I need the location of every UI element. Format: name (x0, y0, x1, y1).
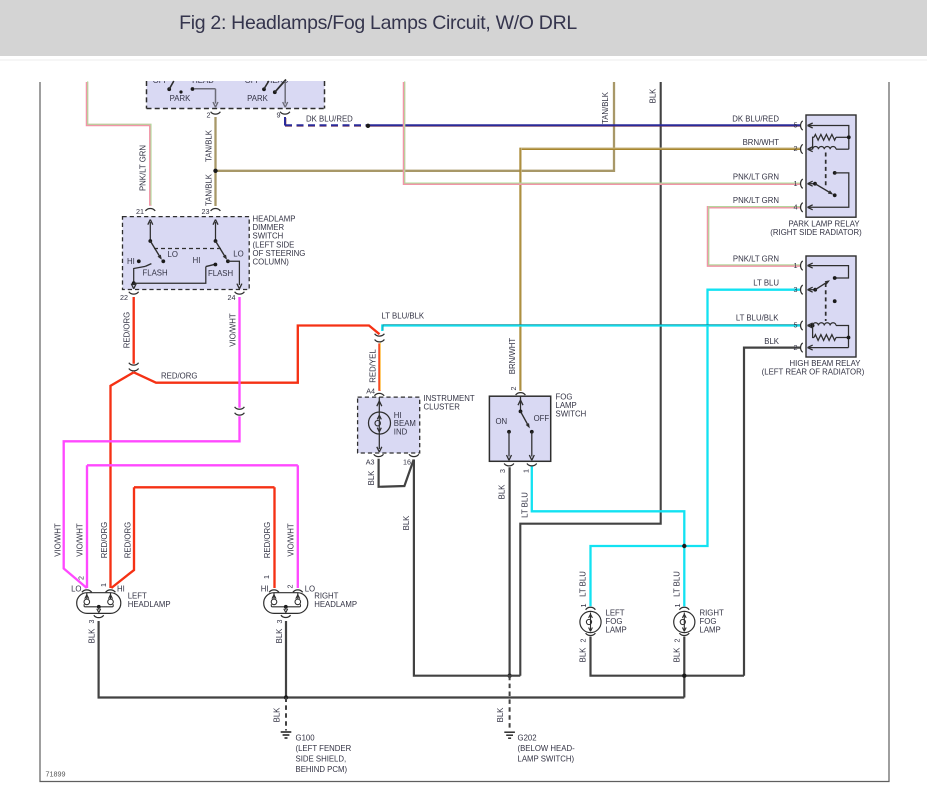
svg-text:PNK/LT GRN: PNK/LT GRN (733, 173, 779, 182)
svg-text:21: 21 (136, 207, 144, 216)
svg-text:LO: LO (233, 249, 243, 258)
svg-text:HI: HI (117, 584, 125, 593)
svg-text:RED/ORG: RED/ORG (123, 522, 132, 558)
svg-text:G100: G100 (296, 734, 316, 743)
svg-text:4: 4 (794, 203, 798, 212)
svg-text:LT BLU/BLK: LT BLU/BLK (382, 311, 425, 320)
svg-text:Fig 2: Headlamps/Fog Lamps Cir: Fig 2: Headlamps/Fog Lamps Circuit, W/O … (179, 12, 577, 34)
svg-text:(BELOW HEAD-: (BELOW HEAD- (518, 744, 576, 753)
svg-text:71899: 71899 (46, 770, 66, 779)
svg-text:16: 16 (403, 457, 411, 466)
svg-text:2: 2 (672, 639, 681, 643)
svg-text:BLK: BLK (367, 470, 376, 486)
svg-text:BLK: BLK (498, 484, 507, 500)
svg-text:2: 2 (77, 576, 86, 580)
svg-text:PNK/LT GRN: PNK/LT GRN (733, 196, 779, 205)
svg-text:2: 2 (509, 387, 518, 391)
svg-text:LAMP: LAMP (606, 625, 627, 634)
svg-text:(LEFT FENDER: (LEFT FENDER (296, 744, 352, 753)
svg-text:TAN/BLK: TAN/BLK (601, 91, 610, 124)
svg-text:TAN/BLK: TAN/BLK (205, 129, 214, 162)
svg-text:24: 24 (228, 293, 236, 302)
svg-text:2: 2 (286, 585, 295, 589)
svg-text:1: 1 (794, 179, 798, 188)
svg-text:5: 5 (794, 121, 798, 130)
svg-text:RED/ORG: RED/ORG (100, 522, 109, 558)
svg-text:LT BLU: LT BLU (521, 492, 530, 518)
svg-text:VIO/WHT: VIO/WHT (228, 313, 237, 347)
svg-text:BLK: BLK (273, 707, 282, 723)
svg-text:LT BLU: LT BLU (753, 279, 779, 288)
svg-text:PARK: PARK (170, 94, 191, 103)
svg-text:LT BLU/BLK: LT BLU/BLK (736, 313, 779, 322)
svg-text:VIO/WHT: VIO/WHT (286, 523, 295, 557)
svg-text:3: 3 (498, 469, 507, 473)
svg-text:1: 1 (262, 575, 271, 579)
svg-text:LO: LO (71, 584, 81, 593)
svg-text:CLUSTER: CLUSTER (424, 402, 461, 411)
svg-text:SWITCH: SWITCH (556, 409, 587, 418)
svg-text:OFF: OFF (534, 414, 550, 423)
svg-text:LO: LO (168, 250, 178, 259)
svg-text:2: 2 (794, 343, 798, 352)
svg-text:PNK/LT GRN: PNK/LT GRN (139, 145, 148, 191)
svg-text:DK BLU/RED: DK BLU/RED (306, 114, 353, 123)
svg-text:FLASH: FLASH (143, 269, 168, 278)
svg-text:BLK: BLK (402, 515, 411, 531)
svg-text:3: 3 (275, 620, 284, 624)
svg-text:COLUMN): COLUMN) (253, 258, 290, 267)
svg-text:LT BLU: LT BLU (579, 571, 588, 597)
svg-text:2: 2 (207, 111, 211, 120)
svg-text:PARK: PARK (247, 94, 268, 103)
svg-text:RED/ORG: RED/ORG (122, 312, 131, 348)
svg-text:HEADLAMP: HEADLAMP (314, 600, 357, 609)
svg-text:DK BLU/RED: DK BLU/RED (732, 114, 779, 123)
svg-text:PNK/LT GRN: PNK/LT GRN (733, 254, 779, 263)
svg-text:BLK: BLK (649, 88, 658, 104)
svg-text:9: 9 (277, 111, 281, 120)
svg-text:HI: HI (127, 257, 135, 266)
svg-text:BLK: BLK (275, 628, 284, 644)
svg-text:(LEFT REAR OF RADIATOR): (LEFT REAR OF RADIATOR) (762, 368, 865, 377)
svg-text:TAN/BLK: TAN/BLK (205, 173, 214, 206)
svg-text:SIDE SHIELD,: SIDE SHIELD, (296, 755, 347, 764)
svg-text:2: 2 (794, 144, 798, 153)
svg-text:1: 1 (521, 469, 530, 473)
svg-text:VIO/WHT: VIO/WHT (76, 523, 85, 557)
svg-text:HI: HI (193, 256, 201, 265)
svg-text:BRN/WHT: BRN/WHT (743, 138, 780, 147)
svg-text:22: 22 (120, 293, 128, 302)
svg-text:2: 2 (578, 639, 587, 643)
svg-text:BLK: BLK (673, 647, 682, 663)
svg-text:LAMP: LAMP (700, 625, 721, 634)
svg-text:HEADLAMP: HEADLAMP (128, 600, 171, 609)
svg-text:G202: G202 (518, 734, 537, 743)
svg-text:HI: HI (261, 584, 269, 593)
svg-text:FLASH: FLASH (208, 269, 233, 278)
svg-text:1: 1 (579, 604, 588, 608)
svg-text:A3: A3 (366, 457, 375, 466)
svg-text:BLK: BLK (87, 628, 96, 644)
svg-text:ON: ON (495, 417, 507, 426)
svg-text:VIO/WHT: VIO/WHT (54, 523, 63, 557)
svg-text:IND: IND (394, 428, 408, 437)
svg-text:BLK: BLK (496, 707, 505, 723)
svg-text:3: 3 (87, 620, 96, 624)
svg-text:5: 5 (794, 321, 798, 330)
svg-text:LT BLU: LT BLU (673, 571, 682, 597)
svg-text:RED/ORG: RED/ORG (263, 522, 272, 558)
svg-text:A4: A4 (366, 387, 375, 396)
svg-text:23: 23 (202, 207, 210, 216)
svg-text:RED/ORG: RED/ORG (161, 371, 197, 380)
svg-text:BLK: BLK (579, 647, 588, 663)
svg-text:(RIGHT SIDE RADIATOR): (RIGHT SIDE RADIATOR) (770, 228, 862, 237)
svg-text:1: 1 (794, 261, 798, 270)
svg-text:RED/YEL: RED/YEL (369, 349, 378, 383)
svg-text:BEHIND PCM): BEHIND PCM) (296, 765, 348, 774)
svg-text:LAMP SWITCH): LAMP SWITCH) (518, 755, 575, 764)
svg-text:1: 1 (673, 604, 682, 608)
svg-text:BLK: BLK (764, 337, 780, 346)
svg-text:3: 3 (794, 285, 798, 294)
svg-text:1: 1 (99, 583, 108, 587)
svg-text:BRN/WHT: BRN/WHT (508, 338, 517, 375)
